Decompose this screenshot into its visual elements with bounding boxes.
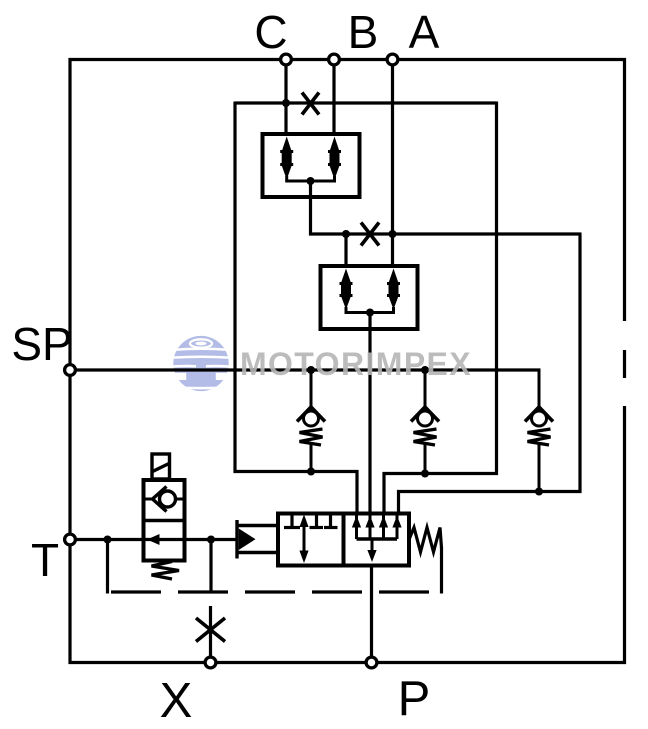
wire: port B drop line	[332, 60, 335, 137]
wire: shuttle1 inner bridge	[287, 176, 335, 181]
port A	[387, 54, 398, 65]
junction RV2/SP gallery	[421, 366, 429, 374]
wire: top manifold edge	[69, 58, 627, 61]
junction T/drain2	[207, 536, 215, 544]
junction RV2/lower-right gallery	[421, 470, 429, 478]
junction A/middle gallery	[389, 230, 397, 238]
junction shuttle2 output	[366, 309, 374, 317]
plug X at port X riser	[196, 618, 225, 642]
wire: drain drop at x=211	[209, 540, 212, 594]
plug X on middle gallery	[361, 223, 379, 246]
wire: right manifold edge (dashed break)	[623, 58, 626, 664]
wire: X port riser	[209, 606, 212, 664]
svg-text:T: T	[31, 534, 59, 586]
wire: upper gallery horizontal (y=103)	[235, 101, 497, 104]
DV right position: manifold with arrows	[352, 514, 402, 563]
port SP	[65, 365, 76, 376]
check poppet B (in shuttle 1)	[328, 137, 341, 180]
RDV spring	[152, 562, 180, 580]
wire: shuttle2 inner bridge	[346, 307, 394, 313]
wire: shuttle1 output drop	[309, 181, 312, 236]
relief valve RV3	[525, 369, 553, 494]
wire: lower-right gallery (y=474.5)	[384, 474, 498, 514]
svg-text:B: B	[348, 6, 379, 58]
wire: T port line	[70, 538, 238, 541]
wire: P port riser	[370, 566, 373, 665]
DV left position: blocked port 2	[310, 514, 324, 528]
RDV flow arrow (left)	[147, 534, 160, 545]
port T	[65, 534, 76, 545]
DV left position: through arrow	[299, 515, 308, 564]
svg-text:A: A	[409, 6, 440, 58]
junction T/drain1	[104, 536, 112, 544]
check poppet B2 (in shuttle 2)	[340, 269, 353, 310]
DV pilot actuator	[236, 520, 278, 559]
shuttle valve block 1	[263, 134, 360, 197]
wire: right gallery vertical x=496.5	[495, 102, 498, 475]
wire: far right vertical x=580	[578, 234, 581, 493]
directional valve DV body	[278, 514, 409, 566]
junction shuttle1 output	[307, 177, 315, 185]
wire: relief3 gallery (y=491.5)	[399, 492, 582, 514]
junction RV1/SP gallery	[307, 366, 315, 374]
watermark globe	[162, 336, 240, 392]
svg-text:SP: SP	[11, 318, 72, 370]
wire: shuttle2 left check riser	[344, 234, 347, 268]
reducing valve RDV body	[144, 480, 185, 561]
wire: spring side drain drop	[440, 547, 443, 594]
junction RV3/relief3 gallery	[535, 488, 543, 496]
wire: dashed drain line	[111, 590, 434, 593]
DV left position: blocked port 3	[324, 514, 338, 528]
check poppet A2 (in shuttle 2)	[387, 269, 400, 310]
svg-text:X: X	[160, 674, 193, 728]
wire: left manifold edge	[68, 58, 71, 664]
svg-text:P: P	[398, 672, 431, 726]
svg-text:MOTORIMPEX: MOTORIMPEX	[240, 346, 472, 382]
wire: bottom manifold edge	[69, 661, 627, 664]
junction C/upper gallery	[282, 99, 290, 107]
DV left position: blocked port 1	[284, 514, 300, 528]
reducing valve RDV pilot cap	[152, 454, 170, 479]
wire: left gallery vertical x=235	[233, 102, 236, 474]
wire: shuttle2 output drop to valve	[368, 313, 371, 514]
port B	[329, 54, 340, 65]
wire: port A drop line	[391, 60, 394, 269]
wire: port C drop line	[284, 60, 287, 137]
relief valve RV2	[411, 370, 439, 475]
svg-text:C: C	[254, 6, 287, 58]
port X	[205, 657, 216, 668]
wire: middle gallery horizontal (y=234)	[309, 232, 582, 235]
junction shuttle2-left/middle gallery	[342, 230, 350, 238]
wire: drain drop at x=107.5	[106, 540, 109, 594]
wire: lower-left gallery (y=471.5)	[234, 472, 358, 514]
plug X on upper gallery	[302, 93, 319, 115]
DV return spring	[409, 528, 442, 553]
relief valve RV1	[297, 370, 325, 473]
port C	[281, 54, 292, 65]
port P	[366, 657, 377, 668]
check poppet C (in shuttle 1)	[280, 137, 293, 180]
junction RV1/lower-left gallery	[307, 468, 315, 476]
RDV ball check	[144, 487, 185, 512]
wire: SP gallery horizontal	[70, 368, 541, 371]
shuttle valve block 2	[321, 266, 418, 329]
